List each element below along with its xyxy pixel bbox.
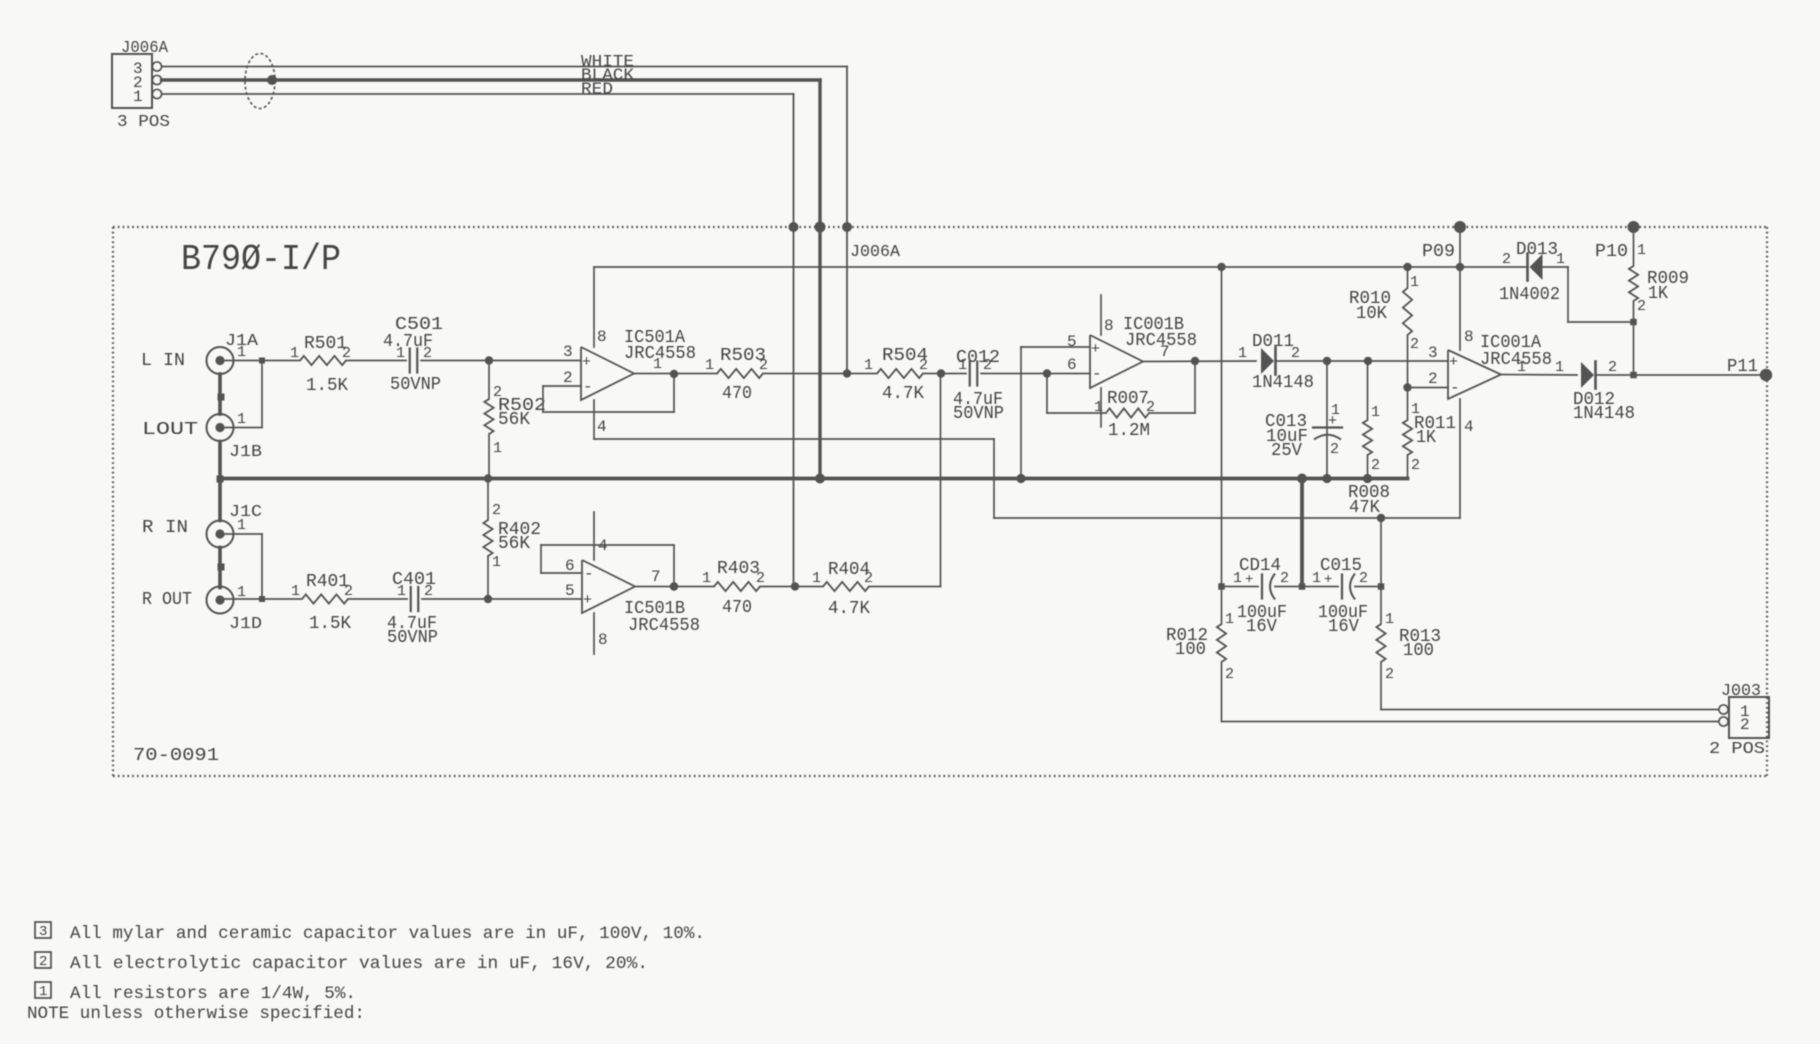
- svg-text:1: 1: [291, 583, 300, 600]
- svg-text:1: 1: [1555, 359, 1564, 376]
- svg-text:2: 2: [1225, 666, 1234, 683]
- svg-text:R501: R501: [304, 334, 347, 354]
- svg-text:D013: D013: [1516, 240, 1558, 260]
- svg-text:1N4002: 1N4002: [1499, 285, 1560, 305]
- svg-text:J006A: J006A: [850, 243, 901, 262]
- svg-text:4: 4: [1464, 418, 1474, 436]
- svg-text:All resistors are 1/4W, 5%.: All resistors are 1/4W, 5%.: [70, 984, 356, 1004]
- svg-text:2: 2: [1411, 457, 1420, 474]
- svg-text:2: 2: [1608, 359, 1617, 376]
- svg-text:2: 2: [1637, 298, 1646, 315]
- svg-text:5: 5: [1067, 333, 1077, 351]
- svg-text:4: 4: [598, 537, 608, 555]
- svg-text:P09: P09: [1422, 242, 1455, 262]
- svg-text:2: 2: [983, 357, 992, 374]
- svg-text:2: 2: [39, 954, 47, 970]
- svg-text:2: 2: [1330, 441, 1339, 458]
- svg-text:+: +: [1328, 413, 1337, 430]
- svg-text:1: 1: [237, 411, 246, 428]
- svg-text:25V: 25V: [1271, 441, 1302, 461]
- svg-text:1: 1: [492, 554, 501, 571]
- svg-text:3: 3: [1428, 344, 1438, 362]
- svg-text:1: 1: [1637, 242, 1646, 259]
- svg-text:RED: RED: [581, 81, 613, 100]
- svg-text:1: 1: [290, 345, 299, 362]
- svg-text:1: 1: [1233, 570, 1242, 587]
- svg-text:P11: P11: [1727, 357, 1758, 377]
- svg-text:1K: 1K: [1648, 284, 1668, 304]
- svg-text:1: 1: [702, 570, 711, 587]
- svg-text:1N4148: 1N4148: [1252, 373, 1314, 393]
- svg-text:1: 1: [493, 440, 502, 457]
- svg-text:16V: 16V: [1246, 617, 1277, 637]
- svg-text:2: 2: [1359, 570, 1368, 587]
- svg-text:1: 1: [864, 357, 873, 374]
- svg-text:1.2M: 1.2M: [1108, 421, 1150, 441]
- svg-text:+: +: [1324, 572, 1332, 588]
- svg-text:1: 1: [1410, 274, 1419, 291]
- svg-text:8: 8: [598, 631, 608, 649]
- svg-text:J003: J003: [1721, 682, 1761, 701]
- svg-text:-: -: [1092, 365, 1102, 383]
- svg-text:10K: 10K: [1356, 304, 1387, 324]
- svg-text:1: 1: [1517, 359, 1526, 376]
- svg-text:2 POS: 2 POS: [1709, 740, 1765, 759]
- svg-text:50VNP: 50VNP: [953, 404, 1004, 424]
- svg-text:1: 1: [396, 345, 405, 362]
- svg-text:16V: 16V: [1328, 617, 1359, 637]
- svg-text:7: 7: [651, 568, 661, 586]
- svg-text:J006A: J006A: [121, 39, 169, 58]
- svg-text:1: 1: [133, 88, 143, 106]
- svg-text:8: 8: [597, 328, 607, 346]
- svg-text:JRC4558: JRC4558: [628, 616, 700, 636]
- svg-text:100: 100: [1403, 641, 1434, 661]
- svg-text:-: -: [584, 565, 594, 583]
- svg-text:LOUT: LOUT: [142, 420, 198, 440]
- svg-text:-: -: [583, 378, 593, 396]
- svg-text:2: 2: [563, 369, 573, 387]
- svg-text:2: 2: [1371, 457, 1380, 474]
- svg-text:R OUT: R OUT: [142, 590, 192, 610]
- svg-text:R401: R401: [306, 572, 349, 592]
- svg-text:-: -: [1450, 379, 1460, 397]
- svg-text:+: +: [583, 592, 592, 609]
- svg-text:D011: D011: [1252, 332, 1294, 352]
- svg-text:1: 1: [1225, 611, 1234, 628]
- svg-text:1: 1: [958, 357, 967, 374]
- svg-text:2: 2: [423, 345, 432, 362]
- svg-text:100: 100: [1175, 640, 1206, 660]
- svg-text:4.7K: 4.7K: [882, 384, 924, 404]
- svg-text:+: +: [582, 354, 591, 371]
- svg-text:J1D: J1D: [229, 615, 262, 634]
- svg-text:3: 3: [39, 924, 47, 940]
- svg-text:470: 470: [722, 598, 752, 618]
- svg-text:1N4148: 1N4148: [1573, 404, 1635, 424]
- svg-text:J1B: J1B: [229, 443, 262, 462]
- svg-text:1: 1: [705, 357, 714, 374]
- svg-text:1.5K: 1.5K: [306, 376, 348, 396]
- svg-text:+: +: [1091, 341, 1100, 358]
- svg-text:R503: R503: [720, 346, 766, 366]
- svg-text:6: 6: [1067, 356, 1077, 374]
- svg-text:JRC4558: JRC4558: [1480, 350, 1552, 370]
- svg-text:B79Ø-I/P: B79Ø-I/P: [181, 239, 341, 280]
- svg-text:R403: R403: [717, 559, 760, 579]
- svg-text:1: 1: [39, 984, 47, 1000]
- svg-text:All mylar and ceramic capacito: All mylar and ceramic capacitor values a…: [70, 924, 705, 944]
- svg-text:2: 2: [1502, 251, 1511, 268]
- svg-text:+: +: [1449, 354, 1458, 371]
- svg-text:47K: 47K: [1349, 498, 1380, 518]
- svg-text:8: 8: [1104, 317, 1114, 335]
- svg-text:2: 2: [1280, 570, 1289, 587]
- svg-text:R IN: R IN: [142, 518, 188, 538]
- svg-text:3: 3: [563, 343, 573, 361]
- svg-text:P10: P10: [1595, 242, 1628, 262]
- svg-text:1: 1: [1371, 404, 1380, 421]
- svg-text:50VNP: 50VNP: [390, 375, 441, 395]
- svg-text:1: 1: [812, 570, 821, 587]
- svg-text:R504: R504: [882, 346, 928, 366]
- svg-text:56K: 56K: [498, 410, 530, 430]
- svg-text:5: 5: [565, 582, 575, 600]
- svg-text:1: 1: [653, 356, 662, 373]
- svg-text:2: 2: [1428, 370, 1438, 388]
- svg-text:1.5K: 1.5K: [309, 614, 351, 634]
- svg-text:4: 4: [597, 418, 607, 436]
- svg-text:1: 1: [237, 517, 246, 534]
- svg-text:470: 470: [722, 384, 752, 404]
- svg-text:1: 1: [1094, 399, 1103, 416]
- svg-text:50VNP: 50VNP: [387, 628, 438, 648]
- svg-text:NOTE unless otherwise specifie: NOTE unless otherwise specified:: [27, 1004, 365, 1024]
- svg-text:L IN: L IN: [141, 351, 185, 371]
- svg-text:1: 1: [397, 583, 406, 600]
- svg-text:2: 2: [1410, 336, 1419, 353]
- svg-text:1: 1: [1385, 611, 1394, 628]
- svg-text:4.7K: 4.7K: [828, 599, 870, 619]
- svg-text:1: 1: [237, 344, 246, 361]
- svg-text:8: 8: [1464, 328, 1474, 346]
- svg-text:R404: R404: [828, 560, 870, 580]
- svg-text:2: 2: [492, 502, 501, 519]
- svg-text:56K: 56K: [498, 534, 530, 554]
- svg-text:+: +: [1245, 572, 1253, 588]
- svg-text:2: 2: [424, 583, 433, 600]
- svg-text:R007: R007: [1107, 389, 1149, 409]
- svg-text:1: 1: [1238, 345, 1247, 362]
- svg-text:7: 7: [1160, 343, 1170, 361]
- svg-text:2: 2: [1740, 716, 1750, 734]
- svg-text:All electrolytic capacitor val: All electrolytic capacitor values are in…: [70, 954, 648, 974]
- svg-text:3 POS: 3 POS: [117, 113, 170, 132]
- svg-text:1: 1: [1312, 570, 1321, 587]
- svg-text:70-0091: 70-0091: [133, 746, 219, 766]
- svg-text:2: 2: [1385, 666, 1394, 683]
- svg-text:1K: 1K: [1416, 428, 1436, 448]
